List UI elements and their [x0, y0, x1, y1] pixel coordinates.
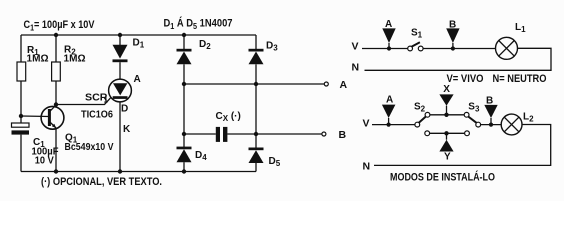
node dot B-D2 — [182, 132, 186, 136]
diode D4 — [183, 134, 185, 147]
svg-text:N: N — [352, 61, 360, 73]
label opcional note — [41, 176, 162, 188]
label Y — [444, 152, 451, 163]
capacitor C1 — [20, 116, 22, 123]
node A terminal — [324, 82, 328, 86]
terminal marker A top — [382, 28, 395, 43]
node dot rail-D1 — [118, 33, 122, 37]
node dot X — [444, 113, 448, 117]
label A anode — [134, 74, 141, 85]
node dot A-D2 — [182, 82, 186, 86]
wire traveler lower — [430, 132, 465, 134]
svg-text:N= NEUTRO: N= NEUTRO — [493, 73, 547, 85]
label N bottom — [363, 160, 371, 172]
label S1 — [411, 27, 423, 39]
node dot emitter-rail — [54, 169, 58, 173]
wire L1 to N — [365, 48, 552, 70]
svg-text:MODOS DE INSTALÁ-LO: MODOS DE INSTALÁ-LO — [390, 171, 495, 184]
svg-text:CX (·): CX (·) — [216, 111, 241, 123]
node dot rail-R2 — [54, 33, 58, 37]
svg-text:K: K — [123, 124, 131, 135]
label A output — [340, 79, 348, 91]
label Q1 — [65, 133, 114, 154]
label vivo neutro — [447, 73, 547, 85]
svg-text:V: V — [352, 41, 359, 53]
wire base — [21, 115, 49, 118]
wire bottom rail — [21, 171, 256, 173]
svg-text:10 V: 10 V — [35, 155, 54, 167]
label C1 top value — [24, 19, 96, 33]
svg-text:A: A — [134, 74, 141, 85]
node dot B-D5 — [254, 132, 258, 136]
label D1 — [133, 38, 145, 50]
svg-text:A: A — [340, 79, 348, 91]
wire S3 to lamp — [481, 124, 502, 126]
lamp L2 — [501, 114, 522, 135]
switch S1 — [408, 46, 413, 51]
svg-text:V= VIVO: V= VIVO — [447, 73, 484, 85]
node dot D4-rail — [182, 169, 186, 173]
terminal marker B bottom — [484, 105, 497, 118]
label R2 — [64, 45, 86, 65]
label D4 — [195, 150, 207, 162]
lamp L1 — [496, 37, 518, 59]
svg-text:1MΩ: 1MΩ — [27, 52, 49, 64]
wire V line top — [362, 48, 408, 50]
svg-text:Bc549x10 V: Bc549x10 V — [65, 142, 114, 153]
label D2 — [199, 39, 211, 51]
switch S3 — [464, 112, 469, 117]
terminal marker B top — [446, 28, 459, 43]
node dot K-rail — [118, 169, 122, 173]
svg-text:D: D — [121, 103, 128, 114]
label R1 — [27, 45, 49, 64]
node dot rail-D2 — [182, 33, 186, 37]
svg-text:B: B — [486, 96, 493, 107]
transistor Q1 — [41, 106, 64, 129]
label V live top — [352, 41, 359, 53]
wire traveler upper — [430, 114, 464, 116]
svg-text:A: A — [385, 19, 392, 30]
resistor R1 — [20, 35, 22, 62]
wire D3 to D5 — [255, 84, 257, 134]
label CX — [216, 111, 241, 123]
label K cathode — [123, 124, 131, 135]
switch S2 — [415, 122, 420, 127]
label L2 — [523, 112, 534, 124]
wire output A rail — [184, 83, 324, 85]
label A bottom — [386, 94, 393, 105]
label B bottom — [486, 96, 493, 107]
terminal marker Y — [439, 140, 453, 152]
node dot A-D3 — [254, 82, 258, 86]
node dot collector — [54, 102, 58, 106]
svg-text:N: N — [363, 160, 371, 172]
label N top — [352, 61, 360, 73]
node dot base node — [19, 114, 23, 118]
svg-text:C1= 100µF x 10V: C1= 100µF x 10V — [24, 19, 96, 33]
label modos — [390, 171, 495, 184]
wire top rail — [21, 34, 256, 36]
diode D1 — [119, 35, 121, 45]
thyristor SCR1 — [109, 79, 132, 102]
wire gate — [56, 98, 111, 105]
label C1 — [32, 137, 60, 167]
capacitor CX — [184, 133, 216, 135]
diode D2 — [183, 35, 185, 49]
wire D2 to D4 — [183, 84, 185, 134]
label S3 — [468, 102, 480, 114]
label B top — [449, 19, 456, 30]
svg-text:TIC1O6: TIC1O6 — [81, 109, 113, 121]
label V live bottom — [363, 117, 370, 129]
label D1..D5 1N4007 — [164, 17, 233, 32]
node dot Y — [444, 131, 448, 135]
terminal marker X — [439, 94, 453, 105]
resistor R2 — [55, 35, 57, 62]
label L1 — [515, 22, 526, 34]
svg-text:B: B — [449, 19, 456, 30]
label D3 — [266, 41, 278, 53]
svg-text:1MΩ: 1MΩ — [64, 53, 86, 65]
wire V line bottom — [372, 124, 415, 126]
terminal marker A bottom — [382, 105, 396, 118]
svg-text:B: B — [339, 129, 347, 141]
label D5 — [269, 156, 281, 168]
diode D5 — [255, 134, 257, 148]
svg-text:(·) OPCIONAL, VER TEXTO.: (·) OPCIONAL, VER TEXTO. — [41, 176, 162, 188]
svg-text:1: 1 — [104, 96, 109, 105]
svg-text:D1 Á D5 1N4007: D1 Á D5 1N4007 — [164, 17, 233, 32]
label SCR1 — [81, 93, 113, 121]
node B terminal — [322, 132, 326, 136]
label B output — [339, 129, 347, 141]
diode D3 — [255, 35, 257, 49]
label A top — [385, 19, 392, 30]
svg-text:Y: Y — [444, 152, 451, 163]
svg-text:V: V — [363, 117, 370, 129]
svg-text:A: A — [386, 94, 393, 105]
label X — [443, 84, 450, 95]
svg-text:X: X — [443, 84, 450, 95]
label S2 — [414, 102, 426, 114]
wire L2 to N — [374, 125, 551, 166]
label D gate — [121, 103, 128, 114]
